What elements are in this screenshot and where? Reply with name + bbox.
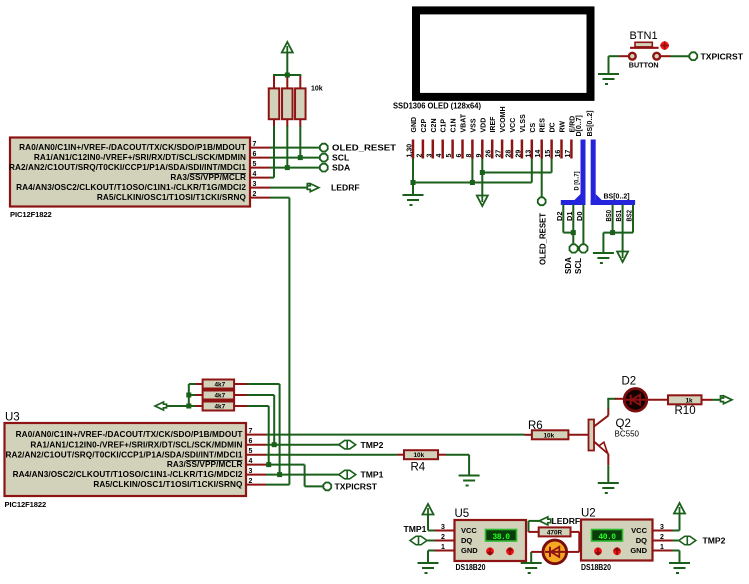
wire collector to D2 <box>607 398 616 400</box>
resistor R6 right lead to Q2 base <box>568 434 588 436</box>
U2 pin 1 stub <box>653 550 673 552</box>
IC U3 pin 3 stub <box>246 474 266 476</box>
wire D2 to D1 junction <box>563 232 573 234</box>
U2 display <box>592 530 623 542</box>
U2 adjust up indicator <box>613 547 621 555</box>
wire BTN1 left stub <box>620 55 629 57</box>
OLED pin 29 stub <box>521 140 524 159</box>
wire U3 pin4 horizontal <box>266 464 305 466</box>
wire 4k7 row1 drop to pin3 <box>279 384 281 475</box>
junction VDD rail <box>480 170 485 175</box>
resistor R6 body <box>532 430 569 439</box>
resistor RP2 bottom lead <box>286 119 288 127</box>
wire 4k7 row2 elbow <box>247 394 274 396</box>
junction RP2/SDA <box>285 165 290 170</box>
IC PIC12F1822 (top) body <box>10 138 250 207</box>
OLED pin 9 stub <box>481 140 484 159</box>
terminal (left arrow) for 4k7 rail <box>155 402 167 410</box>
wire U2 DQ stub <box>673 540 679 542</box>
wire R4 to ground elbow <box>446 454 469 456</box>
transistor Q2 BC550 <box>589 416 609 454</box>
wire BTN1 ground stem <box>608 56 610 73</box>
svg-text:TXPICRST: TXPICRST <box>701 51 744 61</box>
terminal TXPICRST (U3) <box>323 483 331 491</box>
bus D[0..7] elbow <box>561 200 586 205</box>
wire OLED VDD rail <box>482 172 551 174</box>
wire 4k7 row1 elbow <box>247 383 280 385</box>
svg-text:RA5/CLKIN/OSC1/T1OSI/T1CKI/SRN: RA5/CLKIN/OSC1/T1OSI/T1CKI/SRNQ <box>97 193 247 202</box>
svg-text:BUTTON: BUTTON <box>629 61 659 70</box>
power terminal (up arrow) <box>282 42 293 53</box>
svg-text:2: 2 <box>249 478 253 485</box>
resistor R10 body <box>668 395 702 404</box>
svg-text:D2: D2 <box>557 211 564 221</box>
svg-text:4: 4 <box>436 154 443 158</box>
svg-text:6: 6 <box>249 438 253 445</box>
svg-text:26: 26 <box>486 150 493 158</box>
wire D2 from bus <box>562 205 564 233</box>
svg-text:9: 9 <box>476 154 483 158</box>
svg-text:SSD1306 OLED (128x64): SSD1306 OLED (128x64) <box>393 102 481 111</box>
button BTN1 lever <box>630 47 659 49</box>
wire U5 VCC elbow <box>428 530 435 532</box>
wire RP1 to pin4 (MCLR) <box>273 126 275 178</box>
svg-text:4: 4 <box>253 171 257 178</box>
resistor RP3 bottom lead <box>299 119 301 127</box>
terminal TMP2 (U2) <box>679 536 696 545</box>
wire BTN1 to TXPICRST <box>671 55 690 57</box>
svg-text:U2: U2 <box>581 508 596 520</box>
wire U3 pin3 to TMP1 <box>266 474 332 476</box>
svg-text:3: 3 <box>660 524 664 531</box>
OLED pin 1,30 stub <box>412 140 415 159</box>
wire 4k7 row3 elbow <box>247 405 269 407</box>
svg-text:BS[0..2]: BS[0..2] <box>604 193 630 200</box>
svg-text:1k: 1k <box>686 397 694 404</box>
svg-text:13: 13 <box>525 150 532 158</box>
resistor 4k7 #1 left lead <box>196 383 203 385</box>
OLED pin 14 stub <box>540 140 543 159</box>
wire 4k7 row1 left <box>189 383 196 385</box>
button BTN1 cap <box>635 42 652 47</box>
IC U5 DS18B20 body <box>455 520 527 561</box>
wire BS rail to ground <box>602 233 604 252</box>
wire U2 VCC elbow <box>673 530 680 532</box>
wire pin2 long vertical to U3 <box>288 198 290 485</box>
svg-text:VCC: VCC <box>461 526 477 535</box>
svg-text:5: 5 <box>253 161 257 168</box>
IC U3 pin 5 stub <box>246 454 266 456</box>
junction 4k7 row2 <box>186 393 191 398</box>
wire U3 pin4 to TXPICRST <box>305 485 323 487</box>
resistor 470R left lead <box>529 531 539 533</box>
OLED pin 17 stub <box>570 140 573 159</box>
OLED pin 5 stub <box>451 140 454 159</box>
svg-text:PIC12F1822: PIC12F1822 <box>5 500 47 509</box>
svg-text:SDA: SDA <box>564 257 573 274</box>
U2 pin 3 stub <box>653 530 673 532</box>
svg-text:4k7: 4k7 <box>215 381 226 388</box>
wire U2 GND elbow <box>673 550 680 552</box>
wire Q2 collector up <box>607 399 609 409</box>
svg-text:SDA: SDA <box>332 163 350 173</box>
junction D1/D2 <box>571 230 576 235</box>
svg-text:GND: GND <box>630 546 647 555</box>
svg-text:3: 3 <box>426 154 433 158</box>
svg-text:14: 14 <box>535 150 542 158</box>
terminal LEDRF (arrow) <box>307 184 319 192</box>
svg-text:VBAT: VBAT <box>461 113 468 132</box>
wire D1 from bus <box>572 205 574 245</box>
svg-text:LEDRF: LEDRF <box>552 516 581 526</box>
svg-text:R6: R6 <box>528 420 543 432</box>
terminal LEDRF (bottom) <box>539 517 551 525</box>
svg-text:27: 27 <box>496 150 503 158</box>
junction GND rail at VSS <box>470 180 475 185</box>
wire to left arrow terminal <box>166 405 189 407</box>
resistor 4k7 #3 right lead <box>234 405 247 407</box>
U5 pin 2 stub <box>435 540 455 542</box>
resistor 4k7 #1 body <box>203 380 235 389</box>
svg-text:RW: RW <box>560 121 567 133</box>
wire RP1 elbow to pin4 <box>270 177 274 179</box>
terminal OLED_RESET (under OLED) <box>538 197 546 205</box>
svg-text:D[0..7]: D[0..7] <box>576 115 583 136</box>
IC U3 pin 4 stub <box>246 464 266 466</box>
svg-text:16: 16 <box>555 150 562 158</box>
power terminal U5 VCC <box>423 504 434 515</box>
svg-text:5: 5 <box>446 154 453 158</box>
OLED pin 27 stub <box>501 140 504 159</box>
svg-text:DC: DC <box>550 122 557 132</box>
svg-text:10k: 10k <box>414 452 425 459</box>
wire U3 pin2 horizontal <box>266 484 289 486</box>
button BTN1 actuator indicator (red star) <box>660 41 669 50</box>
svg-text:BC550: BC550 <box>615 430 640 439</box>
svg-text:C1P: C1P <box>441 119 448 133</box>
resistor R4 body <box>404 450 438 459</box>
svg-text:RA2/AN2/C1OUT/SRQ/T0CKI/CCP1/P: RA2/AN2/C1OUT/SRQ/T0CKI/CCP1/P1A/SDA/SDI… <box>5 450 242 459</box>
junction GND rail at GND pin <box>411 180 416 185</box>
resistor RP2 top lead <box>286 75 288 88</box>
svg-text:BS0: BS0 <box>606 210 613 222</box>
bus BS[0..2] elbow <box>591 200 635 205</box>
wire OLED ground rail <box>413 182 532 184</box>
resistor RP1 top lead <box>273 75 275 88</box>
wire OLED VDD pin drop <box>481 159 483 196</box>
svg-text:C2N: C2N <box>431 118 438 132</box>
svg-text:DS18B20: DS18B20 <box>456 563 487 572</box>
svg-text:40.0: 40.0 <box>598 533 616 542</box>
display SSD1306 OLED body <box>416 10 591 97</box>
wire U3 pin7 to R6 <box>266 434 525 436</box>
IC top pin 5 stub <box>250 167 270 169</box>
svg-text:BS[0..2]: BS[0..2] <box>587 110 594 136</box>
svg-text:4: 4 <box>249 458 253 465</box>
junction BS0 <box>610 230 615 235</box>
svg-text:IREF: IREF <box>490 116 497 133</box>
wire OLED VSS pin drop <box>471 159 473 183</box>
svg-text:DQ: DQ <box>461 536 472 545</box>
svg-text:15: 15 <box>545 150 552 158</box>
terminal SCL <box>320 154 328 162</box>
svg-text:VLSS: VLSS <box>520 114 527 133</box>
wire BTN1 left to ground <box>609 55 620 57</box>
wire pin2 horizontal <box>270 197 289 199</box>
svg-text:C1N: C1N <box>451 118 458 132</box>
svg-text:SCL: SCL <box>332 153 349 163</box>
wire D0 from bus <box>582 205 584 245</box>
wire TMP2 stub <box>332 444 339 446</box>
svg-text:CS: CS <box>530 122 537 132</box>
IC U3 pin 6 stub <box>246 444 266 446</box>
OLED pin 3 stub <box>432 140 435 159</box>
resistor RP3 10k body <box>295 88 306 119</box>
svg-text:BS1: BS1 <box>616 210 623 222</box>
wire BS1 from bus <box>622 205 624 252</box>
junction 4k7/pin3 <box>277 472 282 477</box>
U2 adjust down indicator <box>594 547 602 555</box>
power terminal U2 VCC <box>674 503 685 514</box>
OLED pin 4 stub <box>441 140 444 159</box>
resistor R6 left lead <box>525 434 532 436</box>
svg-text:RES: RES <box>540 118 547 133</box>
ground symbol U5 <box>418 563 439 573</box>
wire U5 VCC stem <box>427 515 429 531</box>
svg-text:BS2: BS2 <box>626 210 633 222</box>
ground symbol for BS0/BS2 <box>593 253 614 263</box>
IC U3 pin 2 stub <box>246 484 266 486</box>
svg-text:6: 6 <box>253 151 257 158</box>
svg-text:7: 7 <box>253 141 257 148</box>
OLED pin 6 stub <box>461 140 464 159</box>
resistor R4 left lead <box>398 454 405 456</box>
terminal arrow right of R10 <box>721 396 733 404</box>
IC top pin 4 stub <box>250 177 270 179</box>
wire Q2 emitter down red <box>607 454 609 465</box>
svg-text:1: 1 <box>660 544 664 551</box>
IC top pin 3 stub <box>250 187 270 189</box>
resistor RP3 top lead <box>299 75 301 88</box>
U5 pin 1 stub <box>435 550 455 552</box>
wire LEDRF elbow down <box>528 521 530 532</box>
wire TMP1 stub <box>332 474 339 476</box>
svg-text:D1: D1 <box>567 211 574 221</box>
U2 pin 2 stub <box>653 540 673 542</box>
OLED pin 2 stub <box>422 140 425 159</box>
svg-text:17: 17 <box>565 150 572 158</box>
svg-text:GND: GND <box>411 117 418 133</box>
wire U5 GND elbow <box>428 550 435 552</box>
wire OLED DC pin drop <box>551 159 553 173</box>
wire power stem <box>286 53 288 75</box>
svg-text:VCOMH: VCOMH <box>500 106 507 132</box>
terminal SDA (under OLED) <box>570 244 578 252</box>
svg-text:TXPICRST: TXPICRST <box>335 482 378 492</box>
IC U2 DS18B20 body <box>581 520 653 561</box>
svg-text:VDD: VDD <box>480 118 487 133</box>
wire LEDRF net (pin3) <box>270 187 308 189</box>
svg-text:TMP1: TMP1 <box>361 470 384 480</box>
svg-text:R4: R4 <box>411 462 426 474</box>
resistor RP2 10k body <box>282 88 293 119</box>
resistor R4 right lead <box>438 454 446 456</box>
svg-text:VCC: VCC <box>631 526 647 535</box>
junction RP3/SCL <box>298 155 303 160</box>
terminal TMP2 (U3) <box>339 440 356 449</box>
svg-text:VSS: VSS <box>470 118 477 132</box>
wire U5 DQ stub <box>428 540 435 542</box>
wire 4k7 row2 drop to pin6 <box>273 395 275 445</box>
svg-text:2: 2 <box>660 534 664 541</box>
svg-text:5: 5 <box>249 448 253 455</box>
svg-text:6: 6 <box>456 154 463 158</box>
svg-text:OLED_RESET: OLED_RESET <box>539 213 548 265</box>
svg-text:38.0: 38.0 <box>492 533 510 542</box>
svg-text:U3: U3 <box>5 412 20 424</box>
wire LED to ground stem <box>530 552 532 562</box>
wire BS0-BS2 rail <box>603 232 633 234</box>
svg-text:10k: 10k <box>311 86 323 93</box>
IC top pin 2 stub <box>250 197 270 199</box>
resistor 4k7 #2 left lead <box>196 394 203 396</box>
svg-text:TMP2: TMP2 <box>361 440 384 450</box>
wire U2 GND stem <box>679 551 681 563</box>
svg-text:OLED_RESET: OLED_RESET <box>332 143 397 153</box>
bus pin D[0..7] <box>581 140 586 206</box>
svg-text:D2: D2 <box>622 376 637 388</box>
wire U3 pin5 to R4 <box>266 454 398 456</box>
LED (LEDRF indicator) <box>543 540 567 564</box>
svg-text:RA1/AN1/C12IN0-/VREF+/SRI/RX/D: RA1/AN1/C12IN0-/VREF+/SRI/RX/DT/SCL/SCK/… <box>30 440 242 449</box>
U5 adjust up indicator <box>506 547 514 555</box>
wire U2 VCC stem <box>679 514 681 531</box>
svg-text:U5: U5 <box>455 508 470 520</box>
IC top pin 7 stub <box>250 147 270 149</box>
terminal SCL (under OLED) <box>579 244 587 252</box>
OLED pin 26 stub <box>491 140 494 159</box>
resistor R10 right lead <box>702 399 713 401</box>
junction power rail <box>285 73 290 78</box>
IC U3 PIC12F1822 body <box>5 423 247 496</box>
terminal OLED_RESET <box>320 144 328 152</box>
svg-text:D [0..7]: D [0..7] <box>574 172 581 191</box>
junction 4k7 row3 <box>186 404 191 409</box>
OLED pin 15 stub <box>550 140 553 159</box>
wire power rail above resistors <box>273 74 301 76</box>
svg-text:8: 8 <box>466 154 473 158</box>
svg-text:RA4/AN3/OSC2/CLKOUT/T1OSO/C1IN: RA4/AN3/OSC2/CLKOUT/T1OSO/C1IN1-/CLKR/T1… <box>13 470 243 479</box>
svg-text:LEDRF: LEDRF <box>331 183 360 193</box>
svg-text:C2P: C2P <box>421 119 428 133</box>
resistor RP1 bottom lead <box>273 119 275 127</box>
ground symbol for R4 <box>459 476 480 486</box>
svg-text:2: 2 <box>416 154 423 158</box>
wire U3 pin4 vertical <box>304 465 306 487</box>
svg-text:VCC: VCC <box>510 118 517 133</box>
svg-text:RA3/SS/VPP/MCLR: RA3/SS/VPP/MCLR <box>170 173 246 182</box>
wire OLED GND pin drop <box>412 159 414 183</box>
wire BS2 from bus <box>632 205 634 233</box>
terminal SDA <box>320 164 328 172</box>
svg-text:3: 3 <box>253 181 257 188</box>
junction 4k7/pin4 <box>266 462 271 467</box>
power terminal under BS1 (down arrow) <box>617 252 628 263</box>
U5 pin 3 stub <box>435 530 455 532</box>
svg-text:D0: D0 <box>577 211 584 221</box>
svg-text:2: 2 <box>253 191 257 198</box>
U5 display <box>486 530 517 542</box>
svg-text:RA3/SS/VPP/MCLR: RA3/SS/VPP/MCLR <box>167 460 243 469</box>
ground symbol for LED <box>521 563 542 573</box>
svg-text:R10: R10 <box>675 405 696 417</box>
svg-text:1,30: 1,30 <box>407 144 414 158</box>
power terminal under VDD (down arrow) <box>477 196 488 207</box>
resistor RP1 10k body <box>269 88 280 119</box>
svg-text:TMP1: TMP1 <box>404 524 427 534</box>
resistor 4k7 #3 body <box>203 402 235 411</box>
wire LED left lead <box>531 551 542 553</box>
svg-text:RA0/AN0/C1IN+/VREF-/DACOUT/TX/: RA0/AN0/C1IN+/VREF-/DACOUT/TX/CK/SDO/P1B… <box>19 143 246 152</box>
wire 470R to LED right <box>578 532 580 552</box>
resistor 4k7 #2 body <box>203 391 235 400</box>
svg-text:RA0/AN0/C1IN+/VREF-/DACOUT/TX/: RA0/AN0/C1IN+/VREF-/DACOUT/TX/CK/SDO/P1B… <box>16 430 243 439</box>
wire OLED RES to OLED_RESET <box>541 159 543 198</box>
wire U5 GND stem <box>427 551 429 563</box>
ground symbol Q2 emitter <box>598 483 619 493</box>
wire collector to D2 lead <box>615 398 623 400</box>
svg-text:RA4/AN3/OSC2/CLKOUT/T1OSO/C1IN: RA4/AN3/OSC2/CLKOUT/T1OSO/C1IN1-/CLKR/T1… <box>16 183 246 192</box>
U5 adjust down indicator <box>486 547 494 555</box>
svg-text:3: 3 <box>249 468 253 475</box>
OLED pin 13 stub <box>531 140 534 159</box>
wire Q2 collector up red <box>607 408 609 416</box>
svg-text:RA2/AN2/C1OUT/SRQ/T0CKI/CCP1/P: RA2/AN2/C1OUT/SRQ/T0CKI/CCP1/P1A/SDA/SDI… <box>9 163 246 172</box>
wire BTN1 right stub <box>660 55 670 57</box>
resistor 4k7 #1 right lead <box>234 383 247 385</box>
wire SDA net (pin5) <box>270 167 320 169</box>
svg-text:3: 3 <box>441 524 445 531</box>
wire R4 ground stem <box>468 455 470 475</box>
OLED pin 16 stub <box>560 140 563 159</box>
resistor 4k7 #2 right lead <box>234 394 247 396</box>
svg-text:4k7: 4k7 <box>215 403 226 410</box>
ground symbol BTN1 <box>598 74 619 84</box>
IC top pin 6 stub <box>250 157 270 159</box>
svg-text:DQ: DQ <box>636 536 647 545</box>
wire SCL net (pin6) <box>270 157 320 159</box>
resistor 4k7 #3 left lead <box>196 405 203 407</box>
svg-text:470R: 470R <box>547 530 563 537</box>
svg-text:7: 7 <box>249 428 253 435</box>
svg-text:RA5/CLKIN/OSC1/T1OSI/T1CKI/SRN: RA5/CLKIN/OSC1/T1OSI/T1CKI/SRNQ <box>93 480 243 489</box>
terminal TXPICRST (top) <box>689 52 697 60</box>
wire 4k7 row3 left <box>189 405 196 407</box>
IC U3 pin 7 stub <box>246 434 266 436</box>
wire LED right lead <box>568 551 580 553</box>
ground symbol U2 <box>669 563 690 573</box>
wire LEDRF arrow to elbow <box>529 520 540 522</box>
wire R10 to arrow <box>712 399 721 401</box>
OLED pin 8 stub <box>471 140 474 159</box>
terminal TMP1 (U3) <box>339 470 356 479</box>
junction 4k7/pin6 <box>272 442 277 447</box>
button BTN1 left contact <box>629 53 636 60</box>
wire Q2 emitter down <box>607 465 609 482</box>
svg-text:BTN1: BTN1 <box>630 30 658 42</box>
resistor R? 470R body <box>539 527 571 536</box>
LED D2 <box>624 389 647 412</box>
